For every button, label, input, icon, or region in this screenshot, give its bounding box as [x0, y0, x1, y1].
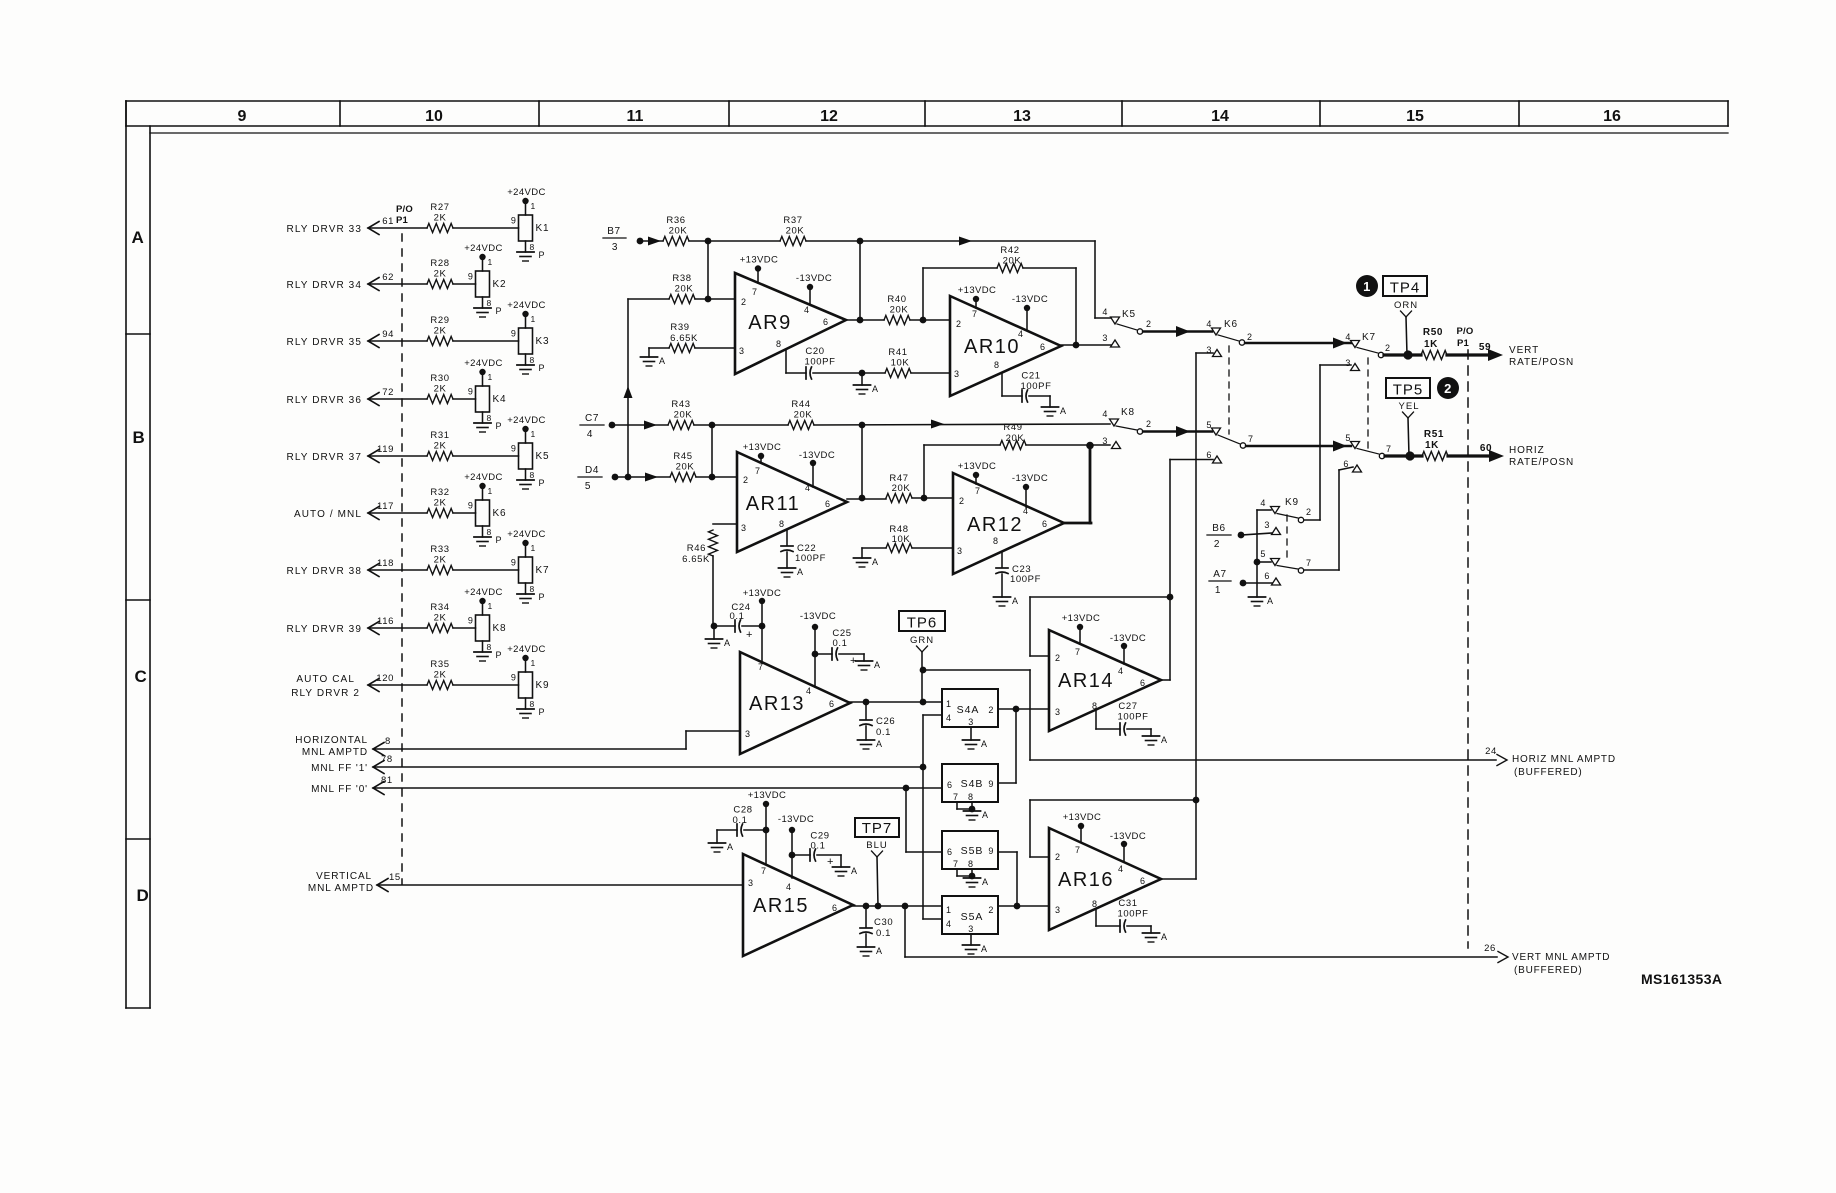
capacitor C26 0.1	[860, 702, 895, 738]
wire R49 to AR12 pin 2	[921, 445, 928, 501]
-13VDC supply (AR15)	[778, 814, 814, 878]
svg-text:2: 2	[1214, 539, 1220, 550]
svg-text:R49: R49	[1003, 422, 1022, 433]
svg-text:VERTICAL: VERTICAL	[316, 871, 372, 882]
-13VDC supply (AR14)	[1110, 633, 1146, 664]
svg-text:11: 11	[627, 108, 644, 125]
wire VERTICAL MNL AMPTD to AR15 pin 3	[377, 884, 743, 886]
svg-text:2K: 2K	[434, 384, 447, 395]
svg-text:+24VDC: +24VDC	[464, 472, 503, 483]
svg-text:R37: R37	[783, 215, 802, 226]
svg-text:2: 2	[1247, 332, 1253, 342]
svg-text:R38: R38	[672, 273, 691, 284]
wire AR15 output to S5A pin 1	[853, 903, 942, 910]
wire K5 pole to K6 contact 4	[1143, 326, 1212, 337]
svg-text:6: 6	[947, 847, 953, 857]
svg-text:A: A	[872, 557, 879, 567]
relay K2	[468, 257, 506, 297]
svg-text:R34: R34	[430, 602, 449, 613]
svg-text:AUTO CAL: AUTO CAL	[296, 674, 355, 685]
svg-text:3: 3	[739, 346, 745, 356]
svg-text:AR14: AR14	[1058, 670, 1114, 692]
svg-text:6: 6	[1264, 571, 1270, 581]
svg-text:8: 8	[1092, 899, 1098, 909]
wire R46 to C24 node	[713, 625, 714, 627]
svg-text:1: 1	[531, 429, 536, 439]
svg-text:2: 2	[1385, 343, 1391, 353]
resistor R47 20K	[847, 473, 953, 503]
svg-text:2: 2	[959, 496, 965, 506]
resistor R50 1K	[1421, 327, 1447, 360]
-13VDC supply (AR12)	[1012, 473, 1048, 507]
svg-text:2: 2	[1146, 419, 1152, 429]
+13VDC supply (AR11)	[743, 442, 782, 463]
relay K8	[468, 601, 506, 641]
svg-text:0.1: 0.1	[876, 727, 891, 738]
svg-text:AR16: AR16	[1058, 869, 1114, 891]
svg-text:8: 8	[385, 736, 391, 747]
svg-text:100PF: 100PF	[1021, 381, 1052, 392]
relay contacts K5	[1102, 307, 1151, 347]
svg-text:8: 8	[994, 360, 1000, 370]
test point TP6	[899, 611, 945, 652]
svg-text:B6: B6	[1212, 523, 1225, 534]
svg-text:-13VDC: -13VDC	[1110, 831, 1146, 842]
svg-text:A: A	[1012, 596, 1019, 606]
svg-text:2: 2	[1055, 852, 1061, 862]
svg-text:RLY DRVR 33: RLY DRVR 33	[287, 224, 362, 235]
svg-text:B: B	[133, 428, 146, 447]
test point TP7	[855, 818, 899, 857]
svg-text:K5: K5	[1122, 309, 1136, 320]
svg-text:K8: K8	[1121, 407, 1135, 418]
op-amp AR10	[950, 296, 1061, 396]
svg-text:+: +	[746, 629, 753, 641]
wire TP5 to node	[1408, 418, 1409, 456]
svg-text:HORIZ: HORIZ	[1509, 445, 1545, 456]
svg-text:6: 6	[1040, 342, 1046, 352]
relay contacts K9	[1260, 497, 1311, 585]
wire R43/R45 junction	[709, 425, 716, 480]
svg-text:R41: R41	[888, 347, 907, 358]
svg-text:+13VDC: +13VDC	[748, 790, 787, 801]
svg-text:4: 4	[587, 429, 593, 440]
svg-text:72: 72	[382, 387, 394, 398]
svg-text:20K: 20K	[1006, 433, 1025, 444]
svg-text:7: 7	[752, 287, 758, 297]
svg-text:20K: 20K	[674, 410, 693, 421]
label VERT RATE/POSN	[1479, 342, 1574, 368]
svg-text:C28: C28	[733, 805, 752, 816]
ground P (K2)	[474, 297, 502, 317]
wire K8 pole to K6 contact 5	[1143, 426, 1212, 437]
svg-text:AR9: AR9	[748, 312, 791, 334]
ground (C28)	[709, 830, 734, 852]
svg-text:15: 15	[389, 872, 401, 883]
svg-text:A: A	[659, 356, 666, 366]
svg-text:RLY DRVR 34: RLY DRVR 34	[287, 280, 362, 291]
svg-text:6: 6	[1206, 450, 1212, 460]
svg-text:C31: C31	[1118, 898, 1137, 909]
svg-text:1: 1	[1363, 279, 1371, 294]
svg-text:MNL AMPTD: MNL AMPTD	[308, 883, 374, 894]
wire S5A pin 2 to AR16 pin 3	[998, 903, 1049, 910]
svg-text:R28: R28	[430, 258, 449, 269]
svg-text:0.1: 0.1	[729, 611, 744, 622]
drawing number MS161353A	[1641, 971, 1722, 987]
wire AR10 output to K5 contact 3	[1061, 344, 1111, 346]
dashed connector boundary P/O P1 (right)	[1457, 326, 1474, 948]
svg-text:2K: 2K	[434, 213, 447, 224]
svg-text:AR10: AR10	[964, 336, 1020, 358]
wire R50 to output 59 VERT RATE/POSN	[1447, 349, 1503, 361]
wire K7 pole 2 to R50	[1384, 350, 1421, 359]
node C7/4	[580, 413, 657, 440]
svg-text:P: P	[496, 535, 503, 545]
wire B6 to K9 contact 3	[1241, 533, 1272, 535]
svg-text:62: 62	[382, 272, 394, 283]
svg-text:K4: K4	[493, 394, 507, 405]
svg-text:116: 116	[377, 616, 394, 627]
svg-text:2K: 2K	[434, 555, 447, 566]
+24VDC supply (K4)	[464, 358, 503, 375]
svg-text:+24VDC: +24VDC	[507, 644, 546, 655]
svg-text:D: D	[137, 886, 150, 905]
ground (C26)	[858, 726, 883, 749]
ground (C20/R41)	[854, 373, 879, 394]
svg-text:9: 9	[511, 673, 517, 683]
svg-text:4: 4	[786, 882, 792, 892]
capacitor C31 100PF	[1096, 898, 1151, 932]
svg-text:9: 9	[988, 846, 994, 856]
svg-text:7: 7	[1386, 444, 1392, 454]
svg-text:4: 4	[1102, 307, 1108, 317]
wire D4 to R38 (vertical)	[624, 299, 633, 480]
resistor R48 10K	[862, 524, 953, 553]
svg-text:MNL FF '1': MNL FF '1'	[311, 763, 368, 774]
svg-text:1: 1	[946, 699, 952, 709]
svg-text:8: 8	[776, 339, 782, 349]
svg-text:A: A	[1267, 596, 1274, 606]
svg-text:P: P	[496, 421, 503, 431]
svg-text:+13VDC: +13VDC	[743, 442, 782, 453]
wire TP7 to AR15 output	[875, 857, 882, 909]
svg-text:K6: K6	[493, 508, 507, 519]
ground P (K5)	[517, 469, 545, 489]
svg-text:A: A	[876, 946, 883, 956]
svg-text:P: P	[539, 363, 546, 373]
svg-text:AR12: AR12	[967, 514, 1023, 536]
svg-text:2: 2	[956, 319, 962, 329]
svg-text:2: 2	[1055, 653, 1061, 663]
svg-text:1: 1	[1215, 585, 1221, 596]
svg-text:R46: R46	[687, 543, 706, 554]
input arrow / wire (94)	[287, 329, 427, 348]
svg-text:120: 120	[376, 673, 394, 684]
+24VDC supply (K8)	[464, 587, 503, 604]
svg-text:3: 3	[745, 729, 751, 739]
svg-text:A: A	[727, 842, 734, 852]
relay contacts K6	[1206, 319, 1253, 463]
svg-text:A: A	[981, 944, 988, 954]
svg-text:A: A	[872, 384, 879, 394]
svg-text:3: 3	[1055, 905, 1061, 915]
svg-text:+24VDC: +24VDC	[464, 358, 503, 369]
svg-text:S4B: S4B	[961, 778, 984, 790]
svg-text:7: 7	[758, 662, 764, 672]
svg-text:BLU: BLU	[866, 840, 887, 851]
svg-text:C26: C26	[876, 716, 895, 727]
wire output 24 HORIZ MNL AMPTD (BUFFERED)	[0, 0, 1507, 766]
+24VDC supply (K6)	[464, 472, 503, 489]
svg-text:TP6: TP6	[907, 615, 938, 632]
wire S4B pin 9 to AR14 pin 3	[998, 709, 1016, 783]
wire AR12 output to K8 contact 3	[1086, 442, 1110, 523]
test point TP4	[1356, 275, 1427, 317]
ground P (K9)	[517, 698, 545, 718]
svg-text:+13VDC: +13VDC	[740, 255, 779, 266]
svg-text:0.1: 0.1	[810, 841, 825, 852]
svg-text:9: 9	[988, 779, 994, 789]
svg-text:P: P	[539, 478, 546, 488]
wire node to AR9 pin 2	[705, 241, 712, 302]
svg-text:R32: R32	[430, 487, 449, 498]
resistor R44 20K (feedback)	[788, 399, 814, 430]
wire AR14 output	[1161, 679, 1170, 681]
svg-text:2K: 2K	[434, 670, 447, 681]
resistor R40 20K	[846, 294, 950, 325]
svg-text:A: A	[874, 660, 881, 670]
svg-text:-13VDC: -13VDC	[1012, 473, 1048, 484]
svg-text:2K: 2K	[434, 613, 447, 624]
svg-text:A: A	[797, 567, 804, 577]
svg-text:A: A	[724, 638, 731, 648]
svg-text:RLY DRVR 39: RLY DRVR 39	[287, 624, 362, 635]
ground (S4A pin 3)	[963, 727, 988, 749]
svg-text:4: 4	[1118, 864, 1124, 874]
ground (K9)	[1249, 596, 1274, 606]
label HORIZ RATE/POSN	[1480, 443, 1574, 468]
node B7/3	[603, 226, 661, 253]
-13VDC supply (AR10)	[1012, 294, 1048, 330]
+24VDC supply (K5)	[507, 415, 546, 432]
+13VDC supply (AR12)	[958, 461, 997, 484]
svg-text:R30: R30	[430, 373, 449, 384]
svg-text:4: 4	[946, 919, 952, 929]
svg-text:AR13: AR13	[749, 693, 805, 715]
svg-text:R50: R50	[1423, 327, 1443, 338]
svg-text:A: A	[982, 877, 989, 887]
svg-text:1: 1	[488, 486, 493, 496]
svg-text:+24VDC: +24VDC	[507, 529, 546, 540]
relay K6	[468, 486, 506, 526]
svg-text:4: 4	[805, 483, 811, 493]
svg-text:1: 1	[531, 201, 536, 211]
wire MNL FF '1' to S4A pin 4 and S5A pin 4	[923, 715, 942, 919]
svg-text:A: A	[982, 810, 989, 820]
label VERTICAL MNL AMPTD	[308, 871, 401, 894]
relay K3	[511, 314, 549, 354]
svg-text:4: 4	[1118, 666, 1124, 676]
+13VDC supply (AR13)	[743, 588, 782, 661]
svg-text:TP5: TP5	[1393, 382, 1424, 399]
svg-text:3: 3	[1345, 358, 1351, 368]
svg-text:6: 6	[1140, 678, 1146, 688]
svg-text:A: A	[981, 739, 988, 749]
wire output 26 VERT MNL AMPTD (BUFFERED)	[0, 0, 1508, 963]
svg-text:16: 16	[1603, 108, 1621, 125]
svg-text:GRN: GRN	[910, 635, 934, 646]
input arrow / wire (119)	[287, 444, 427, 463]
svg-text:RLY DRVR 38: RLY DRVR 38	[287, 566, 362, 577]
switch section S4A	[942, 689, 998, 727]
node B6/2	[1207, 523, 1244, 550]
capacitor C27 100PF	[1096, 701, 1151, 735]
svg-text:R27: R27	[430, 202, 449, 213]
svg-text:9: 9	[511, 216, 517, 226]
svg-text:R39: R39	[670, 322, 689, 333]
svg-text:A: A	[851, 866, 858, 876]
svg-text:9: 9	[468, 501, 474, 511]
relay K5	[511, 429, 549, 469]
svg-text:A7: A7	[1213, 569, 1226, 580]
relay K1	[511, 201, 549, 241]
input arrow / wire (120)	[291, 673, 427, 699]
switch section S4B	[942, 764, 998, 802]
-13VDC supply (AR16)	[1110, 831, 1146, 862]
capacitor C20 100PF	[786, 346, 865, 379]
wire R37 to K5 contact 4	[806, 237, 1111, 319]
svg-text:20K: 20K	[786, 226, 805, 237]
svg-text:1: 1	[946, 905, 952, 915]
label MNL FF '0'	[311, 775, 393, 795]
ground (S5B pins 7,8)	[957, 869, 989, 887]
-13VDC supply (AR9)	[796, 273, 832, 304]
svg-text:C20: C20	[805, 346, 824, 357]
svg-text:4: 4	[1260, 498, 1266, 508]
svg-text:+24VDC: +24VDC	[507, 415, 546, 426]
svg-text:P: P	[539, 250, 546, 260]
svg-text:9: 9	[468, 387, 474, 397]
ground (C29)	[833, 866, 858, 876]
svg-text:R35: R35	[430, 659, 449, 670]
svg-text:117: 117	[377, 501, 394, 512]
ground (C31)	[1143, 926, 1168, 942]
svg-text:C21: C21	[1021, 371, 1040, 382]
svg-text:9: 9	[511, 329, 517, 339]
ground P (K3)	[517, 354, 545, 374]
svg-text:S5A: S5A	[961, 911, 984, 923]
dashed connector boundary P/O P1 (left)	[401, 234, 403, 884]
svg-text:9: 9	[468, 272, 474, 282]
svg-text:YEL: YEL	[1399, 401, 1420, 412]
svg-text:9: 9	[238, 108, 247, 125]
wire D4 to R45	[615, 476, 670, 478]
ground (C27)	[1143, 729, 1168, 745]
svg-text:3: 3	[1102, 333, 1108, 343]
svg-text:20K: 20K	[1003, 256, 1022, 267]
capacitor C23 100PF	[996, 552, 1041, 585]
svg-text:RLY DRVR 37: RLY DRVR 37	[287, 452, 362, 463]
wire TP6 to AR13 output	[920, 652, 927, 705]
svg-text:R43: R43	[671, 399, 690, 410]
svg-text:+13VDC: +13VDC	[1062, 613, 1101, 624]
svg-text:K3: K3	[536, 336, 550, 347]
svg-text:-13VDC: -13VDC	[778, 814, 814, 825]
ground (C23)	[994, 574, 1019, 606]
wire K7 pole 7 to R51	[1385, 451, 1422, 460]
resistor R43 20K	[668, 399, 788, 430]
svg-text:-13VDC: -13VDC	[1110, 633, 1146, 644]
ground (S4B pins 7,8)	[957, 802, 989, 820]
wire AR16 output	[1161, 878, 1196, 880]
wire C7 to R43	[612, 424, 668, 426]
wire HORIZONTAL MNL AMPTD to AR13 pin 3	[373, 731, 740, 749]
+24VDC supply (K7)	[507, 529, 546, 546]
svg-text:+24VDC: +24VDC	[507, 187, 546, 198]
wire AR12 output	[1064, 522, 1091, 525]
svg-text:6: 6	[823, 317, 829, 327]
svg-text:R51: R51	[1424, 429, 1444, 440]
svg-text:C27: C27	[1118, 701, 1137, 712]
relay contacts K7	[1343, 332, 1391, 472]
svg-text:6: 6	[832, 903, 838, 913]
relay K9	[511, 658, 549, 698]
input arrow / wire (62)	[287, 272, 427, 291]
svg-text:20K: 20K	[794, 410, 813, 421]
label HORIZ MNL AMPTD (BUFFERED)	[1485, 746, 1616, 778]
capacitor C30 0.1	[860, 906, 893, 939]
wire HORIZ buffered tap	[923, 670, 1030, 760]
svg-text:(BUFFERED): (BUFFERED)	[1514, 965, 1583, 976]
svg-text:A: A	[1060, 406, 1067, 416]
svg-text:R40: R40	[887, 294, 906, 305]
wire AR9 output feedback tap	[857, 241, 864, 323]
test point TP5	[1386, 377, 1459, 418]
wire K6 pole 7 to K7 contact 5	[1246, 441, 1351, 452]
op-amp AR13	[740, 652, 850, 754]
svg-text:C30: C30	[874, 917, 893, 928]
svg-text:6: 6	[1140, 876, 1146, 886]
svg-text:RLY DRVR 36: RLY DRVR 36	[287, 395, 362, 406]
svg-text:R29: R29	[430, 315, 449, 326]
svg-text:P/O: P/O	[396, 204, 413, 215]
+24VDC supply (K2)	[464, 243, 503, 260]
ground P (K1)	[517, 241, 545, 261]
svg-text:AUTO / MNL: AUTO / MNL	[294, 509, 362, 520]
wire TP4 to node	[1406, 317, 1407, 355]
input arrow / wire (118)	[287, 558, 427, 577]
wire MNL FF '0' to S5B pin 6	[906, 788, 942, 852]
svg-text:7: 7	[975, 486, 981, 496]
ground (R48)	[854, 548, 879, 567]
svg-text:1: 1	[488, 372, 493, 382]
svg-text:3: 3	[1102, 436, 1108, 446]
ground (C22)	[779, 552, 804, 577]
ground (C24)	[706, 626, 731, 648]
svg-text:3: 3	[612, 242, 618, 253]
wire AR13 output to S4A pin 1	[850, 699, 942, 706]
resistor R28	[427, 258, 476, 289]
op-amp AR11	[737, 452, 847, 552]
svg-text:-13VDC: -13VDC	[796, 273, 832, 284]
svg-text:100PF: 100PF	[795, 553, 826, 564]
svg-text:+13VDC: +13VDC	[743, 588, 782, 599]
ground (C21)	[1042, 396, 1067, 416]
svg-text:1: 1	[488, 601, 493, 611]
svg-text:3: 3	[741, 523, 747, 533]
input arrow / wire (116)	[287, 616, 427, 635]
